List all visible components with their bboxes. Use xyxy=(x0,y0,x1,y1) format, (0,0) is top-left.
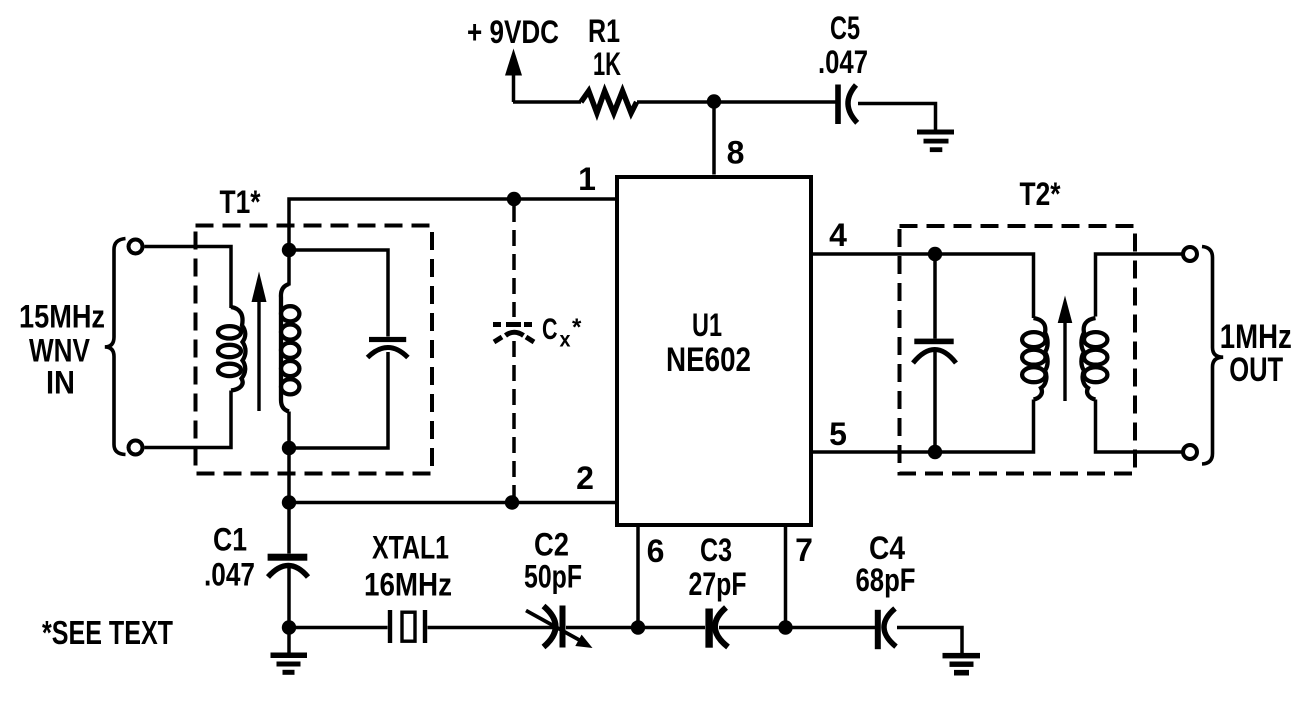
svg-text:C5: C5 xyxy=(830,10,860,46)
svg-text:IN: IN xyxy=(46,365,75,401)
svg-text:1K: 1K xyxy=(593,46,621,82)
svg-text:T1*: T1* xyxy=(220,184,261,220)
svg-text:.047: .047 xyxy=(818,44,868,80)
svg-text:5: 5 xyxy=(829,416,847,452)
svg-text:6: 6 xyxy=(647,533,665,569)
svg-text:C4: C4 xyxy=(869,530,905,566)
svg-text:*SEE TEXT: *SEE TEXT xyxy=(42,615,173,652)
svg-text:4: 4 xyxy=(829,217,847,253)
svg-text:R1: R1 xyxy=(588,13,620,49)
svg-text:C1: C1 xyxy=(213,522,247,558)
svg-text:7: 7 xyxy=(795,532,813,568)
svg-text:*: * xyxy=(572,314,582,341)
svg-text:WNV: WNV xyxy=(29,333,91,369)
svg-text:x: x xyxy=(560,329,571,352)
svg-text:68pF: 68pF xyxy=(856,562,916,598)
svg-text:NE602: NE602 xyxy=(666,341,751,379)
svg-text:50pF: 50pF xyxy=(524,559,582,595)
svg-text:8: 8 xyxy=(727,135,745,171)
svg-text:C3: C3 xyxy=(700,532,732,568)
svg-text:XTAL1: XTAL1 xyxy=(372,530,449,566)
svg-text:.047: .047 xyxy=(204,557,255,593)
svg-text:C2: C2 xyxy=(534,527,569,563)
svg-text:27pF: 27pF xyxy=(689,566,747,602)
svg-text:U1: U1 xyxy=(692,307,722,343)
svg-text:1: 1 xyxy=(578,161,596,197)
svg-text:OUT: OUT xyxy=(1229,351,1283,389)
svg-text:T2*: T2* xyxy=(1020,176,1061,212)
svg-text:C: C xyxy=(542,313,558,346)
svg-text:16MHz: 16MHz xyxy=(364,567,452,603)
svg-text:2: 2 xyxy=(576,460,594,496)
svg-text:15MHz: 15MHz xyxy=(19,299,105,335)
svg-text:+ 9VDC: + 9VDC xyxy=(467,14,559,50)
